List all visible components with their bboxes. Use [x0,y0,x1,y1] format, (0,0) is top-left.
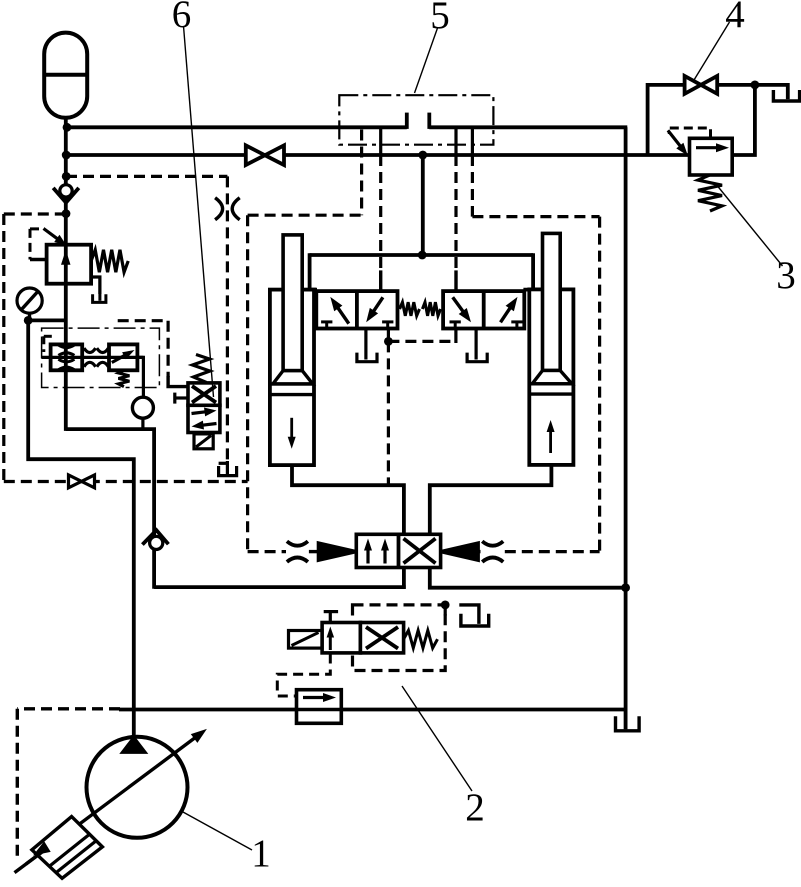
pump circle [87,737,188,838]
valve 2 tank line [459,605,479,624]
dashed cylinder-group box bottom-right [505,550,600,553]
valve 2 dashed box [353,605,446,671]
pump servo arrowhead [33,841,51,855]
relief valve 3 arrow [696,143,729,152]
valve 2 tank [461,614,489,626]
wire top bus from accumulator to component 5 [67,125,407,129]
right valve pilot port stub [454,329,457,344]
relief valve 3 adjust arrow [668,130,688,155]
wire pilot dashed drop to box corner (right) [471,155,474,217]
node accumulator second-bus junction [62,151,71,160]
valve 2 spring [404,630,438,648]
wire second bus right of shut-off valve [284,153,689,157]
wire pilot dashed drop to box corner (left) [360,130,363,216]
right directional valve body [443,291,524,328]
throttle marks in square [58,345,74,370]
wire main line corner to check valve drop [66,429,154,589]
wire cylinder bus to left valve [310,253,317,289]
svg-text:1: 1 [251,832,271,875]
node junction on cylinder bus [418,251,427,260]
right valve drain tank [467,353,487,362]
label 2 [465,786,485,829]
wire pilot into valve 6 [168,376,188,387]
wire gauge junction down to pump outlet riser [28,320,134,737]
svg-text:3: 3 [776,254,796,297]
left valve drain tank [357,353,377,362]
bottom right tank [616,710,640,731]
left valve pilot port [387,329,390,342]
wire pilot dashed drop to right directional valve [454,155,457,271]
pump outlet triangle [120,736,147,754]
label 3 [776,254,796,297]
label 4 leader [694,22,730,80]
right directional valve mid line [482,291,486,328]
throttle on mid drain line [215,198,240,220]
valve 6 spring [193,355,210,383]
valve 6 lower square (flow arrows) [188,405,220,432]
flow control internal line [42,356,144,359]
shut-off valve on second bus [246,145,284,165]
right valve right-square arrow [501,297,518,322]
wire right cylinder to center valve [430,464,552,535]
label 1 leader [183,812,252,850]
pressure reducing valve spring [91,250,128,272]
center valve body [356,534,440,567]
center valve mid line [397,534,401,567]
wire gauge junction to main line [28,318,66,322]
dashed cylinder-group box top-right edge [472,215,599,218]
label 5 [430,0,450,37]
pressure reducing valve flow arrow [61,250,71,265]
right valve right-square blocked port [511,322,522,329]
wire second bus left of shut-off valve [66,153,246,157]
wire component 5 right stub up [427,113,431,129]
left valve left-square arrow [330,297,349,324]
compensator spring [118,370,129,386]
left valve right-square blocked port [382,322,393,329]
wire pump enclosure dashed left edge [16,709,19,861]
svg-text:4: 4 [725,0,745,36]
node below check valve [62,209,71,218]
label 6 [172,0,192,36]
valve 2 pilot dashed hook [277,654,330,697]
flow control unit enclosure [42,328,160,387]
dashed enclosure left edge [2,214,5,482]
shut-off valve in left enclosure [69,475,95,488]
wire ball to corner [141,418,144,431]
label 2 leader [402,686,472,791]
wire bypass loop left riser [648,85,685,155]
boost check valve body [297,690,342,724]
pump servo diagonal tail [15,849,47,873]
boost check valve arrow [303,693,336,702]
valve 2 pilot stub [444,605,447,616]
dashed cylinder-group box right edge [598,217,601,552]
dashed enclosure bottom edge [4,480,248,483]
dashed pilot drop from junction [387,341,390,485]
check valve below accumulator [53,185,79,203]
pump variable arrow [26,729,207,864]
center valve right throttle [482,541,503,562]
node junction return to trunk [621,583,630,592]
top right tank line [755,85,788,99]
right cylinder flow arrow [547,420,555,453]
wire left cylinder to center valve [292,464,404,535]
wire component 5 left stub up [405,113,409,129]
wire triangle to right throttle [478,550,480,553]
wire top bus from component 5 to right down-line [429,125,627,129]
wire gauge stub [28,311,31,320]
dashed flow-control pilot box top [118,319,168,322]
left cylinder flow arrow [288,418,296,449]
label 3 leader [718,186,783,266]
valve 6 upper square (closed X) [188,383,220,405]
wire junction down to relief valve [730,85,755,155]
wire pilot dashed into pump enclosure [17,707,120,710]
right cylinder plunger rod [543,233,561,370]
compensator arrow [112,350,135,363]
relief valve 3 spring [698,175,722,211]
valve 2 blocked top port [324,612,338,623]
flow control compensator square [109,344,137,370]
left cylinder body [270,290,314,466]
wire pilot riser B (solid part) [454,127,457,155]
valve 6 blocked port [175,393,188,404]
pressure reducing valve pilot dashes [30,229,47,260]
left valve drain port [364,329,367,360]
wire right directional valve top port stub [454,270,457,292]
dashed cylinder-group box top-left edge [248,214,362,217]
drain tank of mid enclosure [219,461,237,476]
label 1 [251,832,271,875]
node junction on second bus [418,151,427,160]
center valve left throttle [287,541,308,562]
left valve springs [400,302,441,316]
component 5 box (dash-dot enclosure) [339,95,493,145]
right valve left-square arrow [453,297,471,322]
node mid-enclosure junction [62,172,71,181]
center valve right actuator triangle [441,543,479,560]
node accumulator top-bus junction [63,123,72,132]
wire center valve right bottom port [430,567,628,587]
valve 2 left square (flow) [322,623,360,653]
dashed mid enclosure drain drop [226,176,229,462]
right valve drain port [475,329,478,360]
node valve 2 pilot junction [441,601,450,610]
label 6 leader [184,26,214,397]
dashed cylinder-group box left edge [246,215,249,551]
center valve closed X [404,539,436,564]
left directional valve body [316,291,397,328]
left cylinder plunger rod [283,235,302,371]
wire shut-off valve to junction [717,83,755,87]
top right tank [773,90,799,101]
series throttles [84,348,108,367]
wire bottom return line [341,708,627,712]
wire accumulator stem / main supply line down the left side [64,118,68,431]
left valve left-square blocked port [321,322,332,329]
right cylinder taper [529,371,573,395]
relief valve 3 pilot dashes [669,128,710,138]
node junction top right [751,81,760,90]
wire pilot riser C (solid part) [471,127,474,155]
pressure gauge [17,288,42,313]
label 5 leader [415,28,438,93]
wire center valve left bottom port [402,567,406,589]
left cylinder taper [270,371,314,395]
wire pilot riser A (solid part) [379,127,382,155]
dashed cylinder-group box bottom-left [248,550,286,553]
wire cylinder bus [310,253,533,257]
ball indicator [132,397,153,418]
right valve left-square blocked port [450,322,461,329]
wire return line left segment [154,585,406,589]
relief valve 3 body [690,138,733,175]
center valve flow arrows [364,539,389,564]
center valve left actuator triangle [318,543,356,560]
flow control throttle square [51,344,83,370]
node junction below gauge [24,316,33,325]
dashed pilot small box at throttle unit [44,336,53,352]
pressure reducing valve adjust arrow [44,229,67,246]
pressure reducing valve body [47,245,92,284]
left directional valve mid line [355,291,359,328]
dashed pilot to right valve [388,340,456,343]
wire supply drop from second bus to cylinder bus [421,155,425,255]
wire check valve to pump area line [119,708,297,712]
wire left directional valve top port stub [379,270,382,292]
right cylinder body [529,289,573,465]
valve 2 right square (closed X) [360,623,403,653]
wire right vertical trunk line [624,127,628,729]
wire throttle to triangle [309,550,321,553]
dashed mid enclosure top edge [66,175,227,178]
svg-text:2: 2 [465,786,485,829]
node left valve pilot junction [384,337,393,346]
pump servo actuator [32,817,103,879]
wire compensator outlet [137,357,143,397]
label 4 [725,0,745,36]
wire pilot dashed drop to left directional valve [379,155,382,271]
accumulator [44,33,87,118]
dashed flow-control pilot box right edge [167,321,170,377]
shut-off valve 4 [685,76,718,94]
svg-text:6: 6 [172,0,192,36]
left valve right-square arrow [366,297,383,322]
wire cylinder bus to right valve [523,253,533,289]
svg-text:5: 5 [430,0,450,37]
boost check valve through line [297,708,342,711]
pressure reducing valve drain tank [93,277,106,302]
check valve on drop line [142,530,168,549]
valve 6 solenoid [194,434,213,449]
pressure reducing valve drain line [91,277,100,294]
valve 2 solenoid [289,631,323,649]
dashed enclosure around pump/left units - top edge [4,212,66,215]
